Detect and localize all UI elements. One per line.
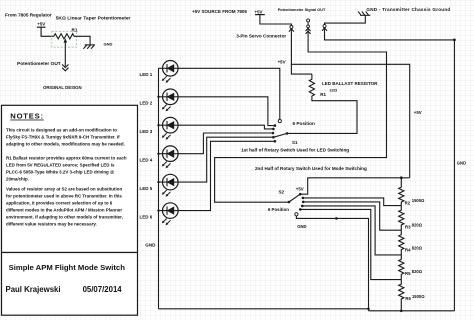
svg-text:for potentiometer used in abov: for potentiometer used in above RC Trans… bbox=[6, 194, 122, 199]
svg-text:This circuit is designed as an: This circuit is designed as an add-on mo… bbox=[6, 128, 117, 133]
LED D2 bbox=[140, 89, 179, 111]
wire LED3 to S1 contact 2 bbox=[178, 125, 272, 129]
svg-text:3-Pin Servo Connector: 3-Pin Servo Connector bbox=[236, 33, 286, 38]
S1 contact 2 bbox=[272, 128, 275, 131]
svg-text:GND: GND bbox=[104, 41, 113, 46]
junction LED6 on bus bbox=[157, 209, 159, 211]
resistor R5 820Ω bbox=[399, 255, 423, 280]
svg-text:R2: R2 bbox=[405, 200, 411, 205]
GND bus bottom (LED side) bbox=[159, 308, 369, 310]
potentiometer outline (green dashed box) bbox=[52, 32, 77, 48]
S2 rotor arm bbox=[289, 194, 300, 202]
power +5V source bar (top center) bbox=[255, 9, 265, 14]
power +5V (original design) bbox=[37, 21, 46, 27]
svg-text:R1 Ballast resistor provides a: R1 Ballast resistor provides approx 60ma… bbox=[6, 156, 127, 161]
signal wire: servo pin 2 to S2 rotor bbox=[215, 34, 387, 202]
wire LED5 to S1 contact 4 bbox=[178, 137, 272, 182]
svg-text:22Ω: 22Ω bbox=[330, 88, 338, 93]
junction LED2 on bus bbox=[157, 96, 159, 98]
+5V feed to S2 contact 1 bbox=[300, 178, 409, 194]
svg-text:+5V: +5V bbox=[278, 60, 286, 65]
wire +5V pin down / branch / to R1 bbox=[291, 32, 312, 75]
svg-text:GND: GND bbox=[145, 242, 156, 247]
title box bbox=[2, 253, 138, 316]
svg-text:S1: S1 bbox=[292, 140, 298, 145]
NOTES box bbox=[2, 105, 138, 252]
svg-text:PLCC-6 5050-Type White 3.2V 3-: PLCC-6 5050-Type White 3.2V 3-chip LED d… bbox=[6, 170, 115, 175]
svg-text:2nd Half of Rotary Switch Used: 2nd Half of Rotary Switch Used for Mode … bbox=[255, 166, 367, 171]
svg-text:R6: R6 bbox=[405, 296, 411, 301]
resistor R6 1500Ω bbox=[399, 280, 426, 311]
svg-text:R4: R4 bbox=[405, 247, 411, 252]
S1 rotor pivot bbox=[286, 132, 289, 135]
S2 contact 1 (+5V) bbox=[299, 193, 302, 196]
svg-text:LED 6: LED 6 bbox=[140, 214, 153, 219]
junction LED3 on bus bbox=[157, 124, 159, 126]
S1 rotor arm bbox=[273, 133, 287, 137]
potentiometer R1 (horizontal zigzag) bbox=[54, 27, 78, 39]
svg-text:05/07/2014: 05/07/2014 bbox=[83, 285, 123, 294]
S2 contact 4 and wire to tap R4/R5 bbox=[301, 205, 401, 255]
svg-text:environment. If adapting to ot: environment. If adapting to other models… bbox=[6, 215, 123, 220]
ground (original design chassis ground) bbox=[83, 45, 95, 49]
svg-text:+5V: +5V bbox=[296, 186, 304, 191]
resistor R2 1500Ω bbox=[399, 178, 425, 206]
svg-text:+5V: +5V bbox=[37, 21, 45, 26]
svg-text:20ma/chip.: 20ma/chip. bbox=[6, 177, 29, 182]
connector pin 1 (+5V) of 3-pin servo connector bbox=[289, 26, 294, 32]
svg-text:+5V: +5V bbox=[414, 110, 422, 115]
LED D4 bbox=[140, 146, 179, 168]
svg-text:R5: R5 bbox=[405, 271, 411, 276]
LED D5 bbox=[140, 174, 179, 196]
LED D1 bbox=[140, 61, 179, 83]
resistor R1 22Ω (LED ballast, vertical zigzag) bbox=[309, 74, 378, 97]
wire S1 rotor to ballast resistor R1 bbox=[287, 96, 357, 134]
LED cathode bus (left vertical) bbox=[158, 68, 160, 308]
LED D3 bbox=[140, 117, 179, 139]
svg-text:Paul Krajewski: Paul Krajewski bbox=[6, 285, 61, 294]
svg-text:Potentiometer OUT: Potentiometer OUT bbox=[17, 61, 61, 67]
svg-text:adapting to other models, modi: adapting to other models, modifications … bbox=[6, 142, 125, 147]
wire +5V to potentiometer R1 bbox=[41, 27, 54, 36]
svg-text:LED from 5V REGULATED source;: LED from 5V REGULATED source; Specified … bbox=[6, 163, 115, 168]
junction +5V to resistor chain bbox=[400, 176, 403, 179]
svg-text:GND: GND bbox=[297, 224, 306, 229]
GND bus bottom (right side) bbox=[369, 310, 455, 312]
svg-text:R3: R3 bbox=[405, 225, 411, 230]
svg-text:R1: R1 bbox=[320, 92, 326, 97]
chassis ground symbol (transmitter) bbox=[358, 11, 370, 15]
notes paragraph 2 bbox=[6, 156, 127, 182]
+5V branch to right rail bbox=[291, 64, 409, 178]
wiper arrow of R1 bbox=[64, 38, 68, 66]
svg-text:From 7805 Regulator: From 7805 Regulator bbox=[5, 13, 52, 18]
svg-text:Potentiometer Signal OUT: Potentiometer Signal OUT bbox=[278, 8, 326, 12]
junction LED5 on bus bbox=[157, 181, 159, 183]
S2 contact 3 and wire to tap R3/R4 bbox=[302, 201, 401, 231]
svg-text:+5V: +5V bbox=[255, 9, 263, 14]
svg-text:S2: S2 bbox=[279, 190, 285, 195]
svg-text:different value resistors may: different value resistors may be necessa… bbox=[6, 222, 97, 227]
wire +5V bar to servo connector pin 1 bbox=[260, 15, 292, 26]
wire GND pin to right-side GND rail bbox=[325, 31, 455, 311]
svg-text:+5V SOURCE FROM 7805: +5V SOURCE FROM 7805 bbox=[192, 9, 247, 14]
S2 rotor pivot bbox=[288, 201, 291, 204]
svg-text:6 Position: 6 Position bbox=[293, 121, 316, 126]
svg-text:LED 3: LED 3 bbox=[140, 129, 153, 134]
connector pin 2 (signal) of 3-pin servo connector bbox=[306, 25, 311, 34]
svg-text:1st half of Rotary Switch Used: 1st half of Rotary Switch Used for LED S… bbox=[241, 147, 349, 152]
S2 contact 2 and wire to tap R2/R3 bbox=[302, 197, 402, 206]
svg-text:GND - Transmitter Chassis Grou: GND - Transmitter Chassis Ground bbox=[366, 7, 450, 12]
svg-text:820Ω: 820Ω bbox=[412, 269, 423, 274]
resistor R3 820Ω bbox=[399, 206, 423, 231]
resistor R4 820Ω bbox=[399, 230, 423, 255]
svg-text:LED BALLAST RESISTOR: LED BALLAST RESISTOR bbox=[322, 81, 378, 86]
svg-text:LED 2: LED 2 bbox=[140, 101, 153, 106]
S2 contact 6 (open circle, GND position) bbox=[295, 213, 369, 311]
S1 contact 4 bbox=[272, 136, 275, 139]
svg-text:ORIGINAL DESIGN: ORIGINAL DESIGN bbox=[43, 85, 82, 90]
wire LED4 to S1 contact 3 bbox=[178, 133, 272, 154]
S1 contact 1 bbox=[274, 124, 277, 127]
S1 contact 3 bbox=[272, 132, 275, 135]
notes paragraph 3 bbox=[6, 187, 123, 227]
S2 contact 5 and wire to tap R5/R6 bbox=[299, 208, 401, 280]
svg-text:GND: GND bbox=[457, 161, 466, 166]
svg-text:6 Position: 6 Position bbox=[268, 207, 289, 212]
junction at GND rail corner bbox=[453, 39, 456, 42]
svg-text:LED 1: LED 1 bbox=[140, 72, 153, 77]
junction GND bus / position-6 drop bbox=[367, 308, 370, 311]
wire LED6 to S1 contact 5 bbox=[178, 141, 274, 210]
connector pin 3 (GND) of 3-pin servo connector bbox=[322, 25, 327, 31]
wire R1 right end to ground bbox=[74, 36, 90, 45]
svg-text:application, it provides corre: application, it provides correct selecti… bbox=[6, 201, 113, 206]
svg-text:Simple APM Flight Mode Switch: Simple APM Flight Mode Switch bbox=[9, 263, 126, 272]
terminal circle: potentiometer signal input bbox=[307, 19, 310, 25]
wire chassis ground to connector pin 3 bbox=[325, 15, 366, 24]
wire LED1 to S1 position-6 contact bbox=[178, 68, 280, 119]
S1 open contact (position with circle) bbox=[278, 120, 281, 123]
svg-text:1500Ω: 1500Ω bbox=[412, 294, 425, 299]
svg-text:NOTES:: NOTES: bbox=[10, 112, 44, 121]
S1 contact 5 bbox=[274, 140, 277, 143]
junction chain bottom on GND bus bbox=[400, 310, 403, 313]
svg-text:LED 5: LED 5 bbox=[140, 186, 153, 191]
svg-text:5KΩ Linear Taper Potentiometer: 5KΩ Linear Taper Potentiometer bbox=[56, 15, 131, 21]
svg-text:1500Ω: 1500Ω bbox=[412, 198, 425, 203]
svg-text:FlySky FS-TH9X & Turnigy 9x/9X: FlySky FS-TH9X & Turnigy 9x/9XR 9-CH Tra… bbox=[6, 135, 120, 140]
svg-text:different modes in the ArduPil: different modes in the ArduPilot APM / M… bbox=[6, 208, 122, 213]
junction LED4 on bus bbox=[157, 153, 159, 155]
notes paragraph 1 bbox=[6, 128, 125, 147]
LED D6 bbox=[140, 203, 179, 225]
wire LED2 to S1 contact 1 bbox=[178, 97, 274, 126]
svg-text:LED 4: LED 4 bbox=[140, 157, 153, 162]
svg-text:820Ω: 820Ω bbox=[412, 245, 423, 250]
port: Potentiometer OUT (double chevron down) bbox=[62, 64, 68, 71]
svg-text:Values of resistor array at S2: Values of resistor array at S2 are based… bbox=[6, 187, 122, 192]
svg-text:820Ω: 820Ω bbox=[412, 222, 423, 227]
